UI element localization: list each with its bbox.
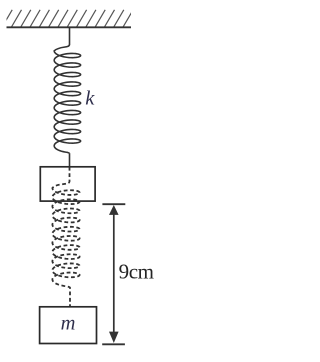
svg-text:9cm: 9cm [119,259,154,283]
stretched spring (dashed) with wire to mass m [52,167,79,307]
wire from spring k to block [69,153,71,166]
dimension top tick [102,203,125,205]
svg-text:m: m [61,313,76,335]
spring k (coil) [54,45,80,154]
ceiling line [7,26,132,28]
svg-text:k: k [85,88,95,110]
top arrowhead [109,205,119,215]
bottom arrowhead [109,332,119,343]
ceiling hatching [2,10,142,28]
dimension line [113,208,115,340]
upper block [40,167,95,201]
wire from ceiling to spring k [69,27,71,45]
dimension bottom tick [102,343,125,345]
block of mass m [40,307,97,344]
